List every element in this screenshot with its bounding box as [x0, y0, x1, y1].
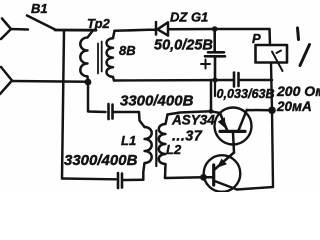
transistor T1 emitter line: [220, 113, 227, 130]
svg-text:ASY34: ASY34: [171, 113, 215, 128]
svg-text:0,033/63В: 0,033/63В: [217, 87, 275, 101]
transformer Tp2 secondary winding 8V: [107, 31, 115, 81]
svg-text:50,0/25В: 50,0/25В: [154, 38, 213, 54]
transformer Tp2 primary winding: [80, 30, 93, 82]
junction dot J2/primary: [85, 79, 92, 86]
transistor T1 base lead down: [233, 133, 234, 153]
core of L1/L2: [155, 131, 157, 167]
wire connector J2 to node: [12, 80, 88, 83]
arrowhead T2 emitter: [217, 159, 227, 168]
capacitor C1 50/25V electrolytic: [205, 29, 225, 80]
transistor T2 circle: [204, 155, 241, 192]
svg-text:3300/400В: 3300/400В: [64, 152, 138, 169]
svg-text:DZ G1: DZ G1: [170, 10, 208, 25]
transistor T2 collector line: [215, 181, 238, 190]
junction dot C1 bottom: [212, 77, 217, 82]
output terminal stroke 2: [300, 45, 310, 66]
wire L2 top to base node of T1: [168, 111, 212, 114]
diode DZ G1: [149, 22, 214, 36]
transformer Tp2 core: [98, 42, 102, 74]
svg-text:8В: 8В: [119, 43, 136, 58]
plus sign of C1: [201, 60, 210, 69]
capacitor C3 3300/400V bottom: [118, 173, 122, 188]
junction dot diode/C1: [212, 26, 218, 32]
output terminal stroke 1: [298, 28, 299, 40]
capacitor C2 3300/400V top: [109, 104, 113, 119]
inductor L1 winding: [143, 127, 151, 180]
wire bottom-left tank: [62, 177, 116, 180]
wire diode to corner right: [214, 28, 270, 31]
wire L2 bottom to T2 base: [165, 176, 213, 179]
transistor T1 collector line: [239, 110, 272, 131]
svg-text:200 Ом: 200 Ом: [276, 83, 320, 99]
resistor P arrow: [272, 51, 283, 72]
wire left rail vertical: [62, 31, 64, 179]
resistor P body: [256, 45, 288, 63]
capacitor C4 0,033/63V: [234, 73, 239, 87]
stroke below wire left of 0,033 label: [214, 81, 216, 96]
svg-text:3300/400В: 3300/400В: [120, 93, 194, 110]
inductor L2 winding: [159, 115, 168, 179]
transistor T1 circle: [215, 108, 252, 145]
connector J2 lower-left: [0, 67, 12, 94]
svg-text:Р: Р: [252, 31, 261, 46]
wire base node to T1 emitter: [211, 111, 220, 113]
svg-text:20мА: 20мА: [276, 99, 312, 114]
transistor T2 emitter line: [215, 153, 235, 170]
junction dot base node: [209, 109, 214, 114]
resistor P lead top: [268, 29, 271, 45]
transistor T2 base bar: [212, 165, 215, 185]
wire C4 to rail: [240, 79, 273, 82]
wire C3 to L1 bottom: [124, 179, 144, 182]
wire top from switch to transformer: [55, 29, 96, 32]
wire tank: node down from J2 node: [88, 82, 106, 112]
wire secondary top to diode: [115, 30, 150, 31]
wire lower main (secondary bottom to right rail): [114, 79, 233, 82]
connector J1 top-left: [1, 19, 28, 40]
junction dot collector/rail: [268, 107, 276, 115]
switch B1 blade: [27, 16, 55, 30]
wire node down from lower main to base node: [210, 80, 213, 111]
wire right rail: [237, 63, 273, 190]
svg-text:L1: L1: [121, 133, 136, 148]
junction dot L2 bottom / T2: [200, 174, 207, 181]
transistor T1 base bar: [220, 130, 245, 133]
svg-text:В1: В1: [31, 1, 48, 16]
svg-text:Тр2: Тр2: [87, 16, 111, 31]
wire C2 to L1 top: [114, 112, 145, 127]
arrowhead T1 emitter: [218, 117, 226, 128]
svg-text:L2: L2: [166, 142, 182, 157]
